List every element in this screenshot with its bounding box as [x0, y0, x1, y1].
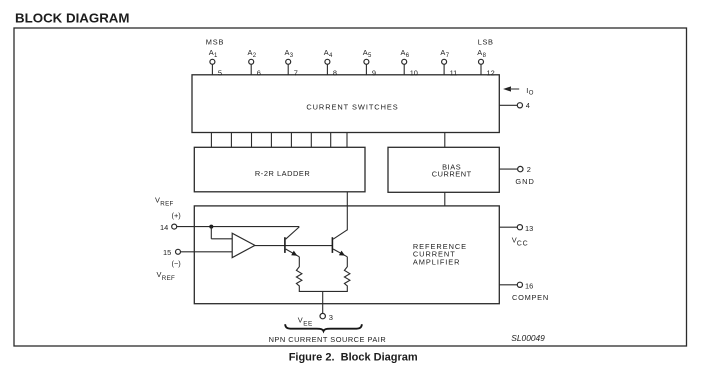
svg-text:(+): (+) [172, 211, 181, 220]
pin 15 terminal [163, 248, 181, 257]
svg-text:V: V [157, 270, 162, 279]
wire: pin 15 to op-amp - input [181, 251, 233, 253]
pin 2 GND terminal [499, 165, 535, 186]
svg-text:7: 7 [446, 53, 450, 59]
svg-text:13: 13 [525, 224, 533, 233]
svg-text:7: 7 [294, 68, 298, 77]
svg-text:Figure 2. Block Diagram: Figure 2. Block Diagram [289, 352, 418, 364]
svg-text:12: 12 [487, 68, 495, 77]
svg-text:1: 1 [214, 53, 218, 59]
pin 14 terminal [160, 223, 177, 232]
svg-text:REF: REF [160, 201, 173, 208]
svg-text:O: O [529, 90, 534, 96]
svg-text:8: 8 [483, 53, 487, 59]
wire: emitter resistors common rail [299, 290, 348, 292]
svg-text:16: 16 [525, 281, 533, 290]
junction node on pin 14 wire [209, 225, 213, 229]
caption Figure 2. Block Diagram [289, 352, 418, 364]
svg-text:8: 8 [333, 68, 337, 77]
svg-text:15: 15 [163, 248, 171, 257]
svg-text:3: 3 [329, 313, 333, 322]
svg-text:6: 6 [406, 53, 410, 59]
svg-text:5: 5 [218, 68, 222, 77]
svg-text:AMPLIFIER: AMPLIFIER [413, 257, 461, 266]
transistor Q2 [332, 230, 347, 257]
svg-text:CC: CC [517, 241, 529, 248]
pin 4 IO terminal [499, 101, 530, 110]
svg-text:3: 3 [290, 53, 294, 59]
label (-) VREF bottom left [157, 259, 181, 282]
svg-text:REF: REF [162, 275, 175, 282]
svg-text:V: V [298, 316, 303, 325]
ladder bus wires (8 lines between CURRENT SWITCHES and R-2R LADDER) [211, 133, 347, 148]
pin 13 VCC terminal [499, 224, 533, 248]
svg-text:14: 14 [160, 223, 168, 232]
svg-text:COMPEN: COMPEN [512, 293, 549, 302]
pin A7 (11) [440, 48, 457, 77]
svg-text:(−): (−) [172, 259, 181, 268]
resistor R1 (Q1 emitter) [296, 257, 302, 292]
brace NPN current source pair [285, 324, 362, 331]
svg-text:A: A [477, 48, 482, 57]
pin A4 (8) [324, 48, 337, 77]
pin 3 VEE terminal [320, 313, 333, 322]
svg-text:11: 11 [450, 68, 458, 77]
label LSB [478, 37, 494, 46]
svg-text:6: 6 [257, 68, 261, 77]
svg-text:BLOCK DIAGRAM: BLOCK DIAGRAM [15, 10, 130, 25]
svg-text:A: A [440, 48, 445, 57]
pin A1 (5) [209, 48, 222, 77]
svg-text:A: A [363, 48, 368, 57]
op-amp U2 [232, 233, 255, 257]
block R-2R LADDER [194, 147, 365, 192]
wire: CURRENT SWITCHES to BIAS CURRENT [444, 133, 446, 148]
label MSB [206, 37, 224, 46]
label VEE [298, 316, 313, 328]
wire: R-2R LADDER down to Q2 collector [346, 192, 348, 231]
pin A3 (7) [285, 48, 298, 77]
svg-text:GND: GND [515, 177, 534, 186]
svg-text:9: 9 [372, 68, 376, 77]
svg-text:NPN CURRENT SOURCE PAIR: NPN CURRENT SOURCE PAIR [269, 335, 387, 344]
svg-text:A: A [209, 48, 214, 57]
svg-text:10: 10 [410, 68, 418, 77]
svg-text:A: A [248, 48, 253, 57]
block REFERENCE CURRENT AMPLIFIER [194, 206, 499, 304]
pin A6 (10) [401, 48, 418, 77]
block U1 CURRENT SWITCHES [192, 75, 499, 133]
svg-text:SL00049: SL00049 [511, 333, 545, 343]
pin A8 (12) [477, 48, 494, 77]
svg-text:2: 2 [253, 53, 257, 59]
title BLOCK DIAGRAM [15, 10, 130, 25]
wire: pin 14 to Q1 collector corner [177, 226, 300, 228]
svg-text:EE: EE [303, 320, 313, 327]
svg-text:CURRENT: CURRENT [432, 169, 472, 178]
pin 16 COMPEN terminal [499, 281, 549, 302]
svg-text:LSB: LSB [478, 37, 494, 46]
svg-text:V: V [155, 196, 160, 205]
svg-text:A: A [401, 48, 406, 57]
label SL00049 [511, 333, 545, 343]
pin A5 (9) [363, 48, 376, 77]
svg-text:R-2R LADDER: R-2R LADDER [255, 169, 310, 178]
wire: junction down and right to op-amp + input [211, 227, 232, 239]
svg-text:5: 5 [368, 53, 372, 59]
block BIAS CURRENT [388, 147, 499, 192]
svg-text:4: 4 [329, 53, 333, 59]
wire: op-amp output to transistor bases [255, 245, 333, 247]
wire: BIAS CURRENT to REFERENCE CURRENT AMPLIFIER [444, 192, 446, 206]
svg-text:2: 2 [527, 165, 531, 174]
wire: rail down to VEE pin 3 [322, 291, 324, 313]
label VREF (+) top left [155, 196, 181, 221]
transistor Q1 [285, 227, 299, 257]
arrow IO input [503, 86, 534, 97]
svg-text:A: A [324, 48, 329, 57]
pin A2 (6) [248, 48, 261, 77]
svg-text:4: 4 [526, 101, 530, 110]
resistor R2 (Q2 emitter) [344, 257, 350, 292]
svg-text:MSB: MSB [206, 37, 224, 46]
svg-text:CURRENT SWITCHES: CURRENT SWITCHES [306, 103, 398, 112]
svg-text:A: A [285, 48, 290, 57]
label NPN CURRENT SOURCE PAIR [269, 335, 387, 344]
